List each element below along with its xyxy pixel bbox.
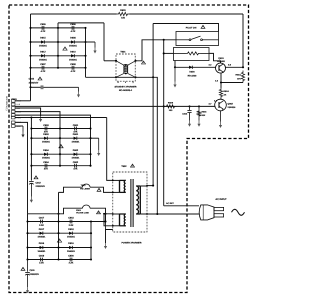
- capacitor C919: [40, 258, 42, 262]
- svg-text:D916: D916: [39, 242, 45, 245]
- wire block1 row1: [31, 27, 86, 29]
- svg-text:PILOT ON: PILOT ON: [186, 26, 197, 29]
- wire block2 row3: [31, 153, 90, 155]
- svg-text:1N4001: 1N4001: [72, 157, 81, 160]
- wire R924 to Q902: [220, 98, 222, 101]
- resistor R926 to ground: [198, 105, 200, 107]
- svg-text:15K: 15K: [202, 114, 206, 117]
- svg-text:Q902: Q902: [228, 103, 234, 106]
- T902 secondary bottom lead: [140, 213, 199, 215]
- junction dots T901 edges: [115, 60, 117, 62]
- T901 lead bottom left: [116, 73, 124, 77]
- wire pin1 to block1: [15, 100, 31, 102]
- wire block3 mid bus: [58, 222, 60, 260]
- svg-text:3: 3: [132, 81, 133, 84]
- wire bus C ac return: [163, 40, 165, 206]
- svg-text:2.2K: 2.2K: [39, 224, 44, 227]
- transformer T901 dashed box: [116, 54, 135, 81]
- diode D915: [41, 40, 44, 43]
- wire block3 right vertical: [105, 214, 107, 222]
- svg-text:2.2K: 2.2K: [69, 224, 74, 227]
- svg-text:47K: 47K: [44, 130, 49, 133]
- diode D910: [71, 54, 74, 57]
- wire Q901 emitter: [220, 73, 222, 88]
- wire pilot top rail: [153, 24, 218, 32]
- wire Q901 collector to right rail: [225, 66, 243, 68]
- wire block1 row4: [31, 67, 86, 69]
- T902 secondary top lead: [140, 185, 153, 187]
- svg-text:R926: R926: [202, 110, 208, 113]
- svg-text:R924: R924: [224, 90, 230, 93]
- svg-text:4.7K: 4.7K: [41, 70, 46, 73]
- svg-text:T903: T903: [81, 184, 87, 187]
- svg-text:C904: C904: [43, 161, 49, 164]
- svg-text:D910: D910: [70, 51, 76, 54]
- capacitor C907: [41, 66, 43, 70]
- warning triangle block1: [63, 47, 67, 50]
- wire R923 bottom to emitter rail: [221, 82, 243, 84]
- wire bus C to coil box: [164, 52, 174, 54]
- T902 core: [130, 179, 132, 227]
- resistor R920: [117, 12, 130, 15]
- capacitor C908: [71, 66, 73, 70]
- wire pin6 block2 top rail: [15, 117, 107, 119]
- wire coil box to Q901 collector: [209, 53, 221, 63]
- wire block3 row2: [28, 232, 92, 234]
- diode D908: [71, 40, 74, 43]
- capacitor C918: [69, 220, 71, 224]
- svg-text:D912: D912: [40, 51, 46, 54]
- wire T903 line with jog: [59, 187, 83, 192]
- svg-text:4.7K: 4.7K: [71, 30, 76, 33]
- T902 center tap ground: [106, 230, 113, 244]
- T901 lead top right: [128, 61, 136, 65]
- wire block3 row3: [28, 247, 92, 249]
- diode D903: [44, 137, 47, 140]
- wire block3 mid bus top: [58, 192, 60, 221]
- warning triangle block3: [57, 239, 61, 242]
- svg-text:2: 2: [125, 81, 126, 84]
- resistor R924: [219, 88, 222, 99]
- svg-text:C903: C903: [43, 124, 49, 127]
- svg-text:C918: C918: [68, 217, 74, 220]
- svg-text:4.7K: 4.7K: [41, 30, 46, 33]
- svg-text:C902: C902: [73, 161, 79, 164]
- resistor R923: [241, 71, 244, 83]
- svg-text:STANDBY XFORMER: STANDBY XFORMER: [114, 85, 136, 88]
- svg-text:AC RET: AC RET: [166, 202, 175, 205]
- svg-text:47K: 47K: [73, 130, 78, 133]
- svg-text:F901: F901: [76, 209, 82, 212]
- switch S901: [176, 39, 189, 41]
- capacitor C901: [74, 127, 76, 131]
- diode D920: [189, 66, 192, 69]
- wire pin3 to ground: [15, 108, 41, 116]
- diode D917: [40, 232, 43, 235]
- connector pin 1: [12, 99, 16, 102]
- svg-text:1N4001: 1N4001: [42, 157, 51, 160]
- capacitor C917: [40, 220, 42, 224]
- T901 winding helix: [124, 65, 128, 68]
- transformer T902 dashed box: [113, 172, 147, 232]
- svg-text:C901: C901: [73, 124, 79, 127]
- svg-text:2.2K: 2.2K: [39, 262, 44, 265]
- svg-text:D901: D901: [73, 133, 79, 136]
- wire block1 right vertical: [103, 23, 105, 61]
- wire right rail down to Q901 collector: [242, 14, 244, 67]
- wire block2 left bus: [30, 129, 32, 181]
- wire block3 row4: [28, 259, 92, 261]
- svg-text:T901: T901: [120, 51, 126, 54]
- svg-text:47K: 47K: [44, 167, 49, 170]
- svg-text:R923: R923: [236, 74, 242, 77]
- svg-text:C906: C906: [70, 23, 76, 26]
- junction dots block2: [30, 127, 32, 129]
- plug prong 1: [214, 207, 224, 210]
- svg-text:1N4001: 1N4001: [39, 45, 48, 48]
- switch box: [176, 32, 219, 46]
- wire block2 top rail joint: [30, 116, 32, 118]
- wire T901 to right bus: [136, 40, 177, 61]
- svg-text:2200/25V: 2200/25V: [30, 273, 40, 276]
- T902 primary lead 3: [113, 213, 120, 215]
- wire block2 mid bus: [59, 129, 61, 166]
- connector pin 4: [12, 110, 16, 113]
- svg-text:C912: C912: [36, 181, 42, 184]
- wire block1 bus3: [85, 28, 87, 77]
- wire block2 bus3: [90, 129, 92, 166]
- wire block3 left bus: [27, 214, 29, 260]
- diode D918: [69, 232, 72, 235]
- coil L901: [186, 52, 201, 55]
- svg-text:C907: C907: [40, 63, 46, 66]
- AC sine symbol: [232, 209, 245, 215]
- wire block1 to T901 primary: [104, 60, 116, 62]
- svg-text:C920: C920: [68, 255, 74, 258]
- svg-text:1N4001: 1N4001: [69, 45, 78, 48]
- diode D916: [40, 246, 43, 249]
- wire block1 row3: [31, 55, 86, 57]
- wire block2 row2: [31, 137, 90, 139]
- wire pin4 to block2 mid bus: [15, 112, 60, 129]
- plug body: [199, 205, 214, 220]
- diode D904: [44, 153, 47, 156]
- capacitor C902: [74, 164, 76, 168]
- svg-text:D915: D915: [40, 37, 46, 40]
- capacitor C903: [44, 127, 46, 131]
- diode D912: [41, 54, 44, 57]
- junction dots block1: [29, 27, 31, 29]
- svg-text:1N4001: 1N4001: [39, 58, 48, 61]
- svg-text:C905: C905: [40, 23, 46, 26]
- ground arrow block2: [91, 137, 99, 139]
- svg-text:2SB536: 2SB536: [228, 106, 237, 109]
- wire F901 line with jog: [28, 208, 83, 214]
- T902 secondary winding: [139, 186, 141, 214]
- svg-text:1N4001: 1N4001: [38, 250, 47, 253]
- svg-text:D918: D918: [68, 228, 74, 231]
- diode D919: [69, 246, 72, 249]
- svg-text:AC INPUT: AC INPUT: [215, 198, 227, 201]
- svg-text:D903: D903: [43, 133, 49, 136]
- capacitor C911 with ground: [21, 267, 25, 270]
- wire standby bottom rail: [86, 77, 158, 214]
- wire block2 row1: [31, 128, 90, 130]
- svg-text:C910: C910: [29, 77, 35, 80]
- capacitor C920: [69, 258, 71, 262]
- T902 primary lead 4: [113, 225, 120, 227]
- wire rail down to T902 primary: [107, 118, 113, 181]
- ground arrow block1: [86, 41, 96, 43]
- capacitor C904: [44, 164, 46, 168]
- svg-text:D904: D904: [43, 149, 49, 152]
- svg-text:NC-140523-1: NC-140523-1: [119, 89, 133, 92]
- svg-text:4.7K: 4.7K: [71, 70, 76, 73]
- svg-text:FM LINER: FM LINER: [80, 188, 90, 191]
- connector pin 5: [12, 114, 16, 117]
- svg-text:C919: C919: [39, 255, 45, 258]
- warning triangle right of T901: [142, 61, 146, 64]
- transistor Q902: [215, 99, 227, 111]
- wire pin7 to block3 long bus: [15, 122, 28, 213]
- svg-text:C908: C908: [70, 63, 76, 66]
- wire pin5 to block2 bus3: [15, 115, 91, 128]
- svg-text:1N4001: 1N4001: [67, 236, 76, 239]
- T902 primary winding upper: [119, 180, 121, 192]
- svg-text:RD-3200: RD-3200: [188, 75, 198, 78]
- wire block1 top inner: [58, 22, 104, 24]
- svg-text:2.2K: 2.2K: [69, 262, 74, 265]
- svg-text:2SD400: 2SD400: [217, 60, 226, 63]
- resistor R925: [165, 105, 177, 108]
- T902 outer tap step: [104, 214, 113, 226]
- T902 primary winding lower: [119, 214, 121, 226]
- svg-text:1N4001: 1N4001: [42, 140, 51, 143]
- capacitor C912 with ground: [34, 176, 38, 179]
- T901 lead bottom right: [128, 73, 136, 77]
- connector pin 2: [12, 103, 16, 106]
- wire block3 row1: [28, 221, 106, 223]
- T902 primary lead 2: [113, 191, 120, 193]
- junction dots T902 left edge: [112, 180, 114, 182]
- wire block1 row2: [31, 41, 86, 43]
- svg-text:C911: C911: [30, 269, 36, 272]
- diode D902: [74, 153, 77, 156]
- warning triangle block2: [59, 145, 63, 148]
- wire Q902 emitter ground: [220, 111, 222, 122]
- wire coil box bottom to base node: [174, 61, 176, 68]
- svg-text:C913: C913: [182, 112, 188, 115]
- relay coil box: [174, 48, 210, 61]
- capacitor C913 to ground: [188, 105, 190, 107]
- svg-text:Q901: Q901: [218, 57, 224, 60]
- ground arrow pilot: [174, 67, 176, 81]
- fuse T903: [83, 184, 91, 187]
- connector pin 6: [12, 116, 16, 119]
- svg-text:R925: R925: [168, 101, 174, 104]
- svg-text:FILTER LINE: FILTER LINE: [76, 212, 89, 215]
- fuse F901: [83, 205, 91, 208]
- svg-text:2 H.B: 2 H.B: [16, 103, 21, 106]
- svg-text:B/W MAIN (1): B/W MAIN (1): [5, 96, 8, 111]
- svg-text:1N4001: 1N4001: [72, 140, 81, 143]
- svg-text:4700/16V: 4700/16V: [29, 81, 39, 84]
- T901 lead top left: [116, 61, 124, 65]
- connector pin 3: [12, 107, 16, 110]
- plug prong 2: [214, 214, 224, 217]
- wire block1 left bus: [30, 14, 32, 101]
- board outline dashed border: [9, 5, 249, 293]
- wire base rail: [175, 66, 216, 68]
- svg-text:D902: D902: [73, 149, 79, 152]
- svg-text:T902: T902: [121, 165, 127, 168]
- svg-text:47K: 47K: [73, 167, 78, 170]
- svg-text:1K: 1K: [224, 94, 227, 97]
- capacitor C905: [41, 26, 43, 30]
- svg-text:2200/16V: 2200/16V: [36, 185, 46, 188]
- wire pin8 to chassis ground: [15, 125, 23, 127]
- capacitor C906: [71, 26, 73, 30]
- svg-text:D920: D920: [189, 71, 195, 74]
- svg-text:C917: C917: [39, 217, 45, 220]
- connector pin 8: [12, 125, 16, 128]
- svg-text:D908: D908: [70, 37, 76, 40]
- svg-text:D919: D919: [68, 242, 74, 245]
- transistor Q901: [216, 63, 226, 73]
- wire bus A standby: [152, 24, 154, 186]
- wire pin2 signal to Q902 base: [15, 105, 216, 107]
- svg-text:POWER XFORMER: POWER XFORMER: [122, 242, 142, 245]
- wire block3 bus3: [90, 222, 92, 260]
- junction dots block3: [26, 220, 28, 222]
- svg-text:1N4001: 1N4001: [69, 58, 78, 61]
- wire top rail: [31, 13, 117, 15]
- wire AC hot to plug: [164, 205, 199, 207]
- svg-text:1N4001: 1N4001: [67, 250, 76, 253]
- T902 primary lead 1: [113, 179, 120, 181]
- wire block1 mid bus: [57, 23, 59, 68]
- diode D901: [74, 137, 77, 140]
- connector pin 7: [12, 121, 16, 124]
- svg-text:D917: D917: [39, 228, 45, 231]
- wire block2 row4: [31, 165, 90, 167]
- svg-text:R920: R920: [120, 9, 126, 12]
- svg-text:1N4001: 1N4001: [38, 236, 47, 239]
- capacitor C910 with ground: [29, 86, 31, 88]
